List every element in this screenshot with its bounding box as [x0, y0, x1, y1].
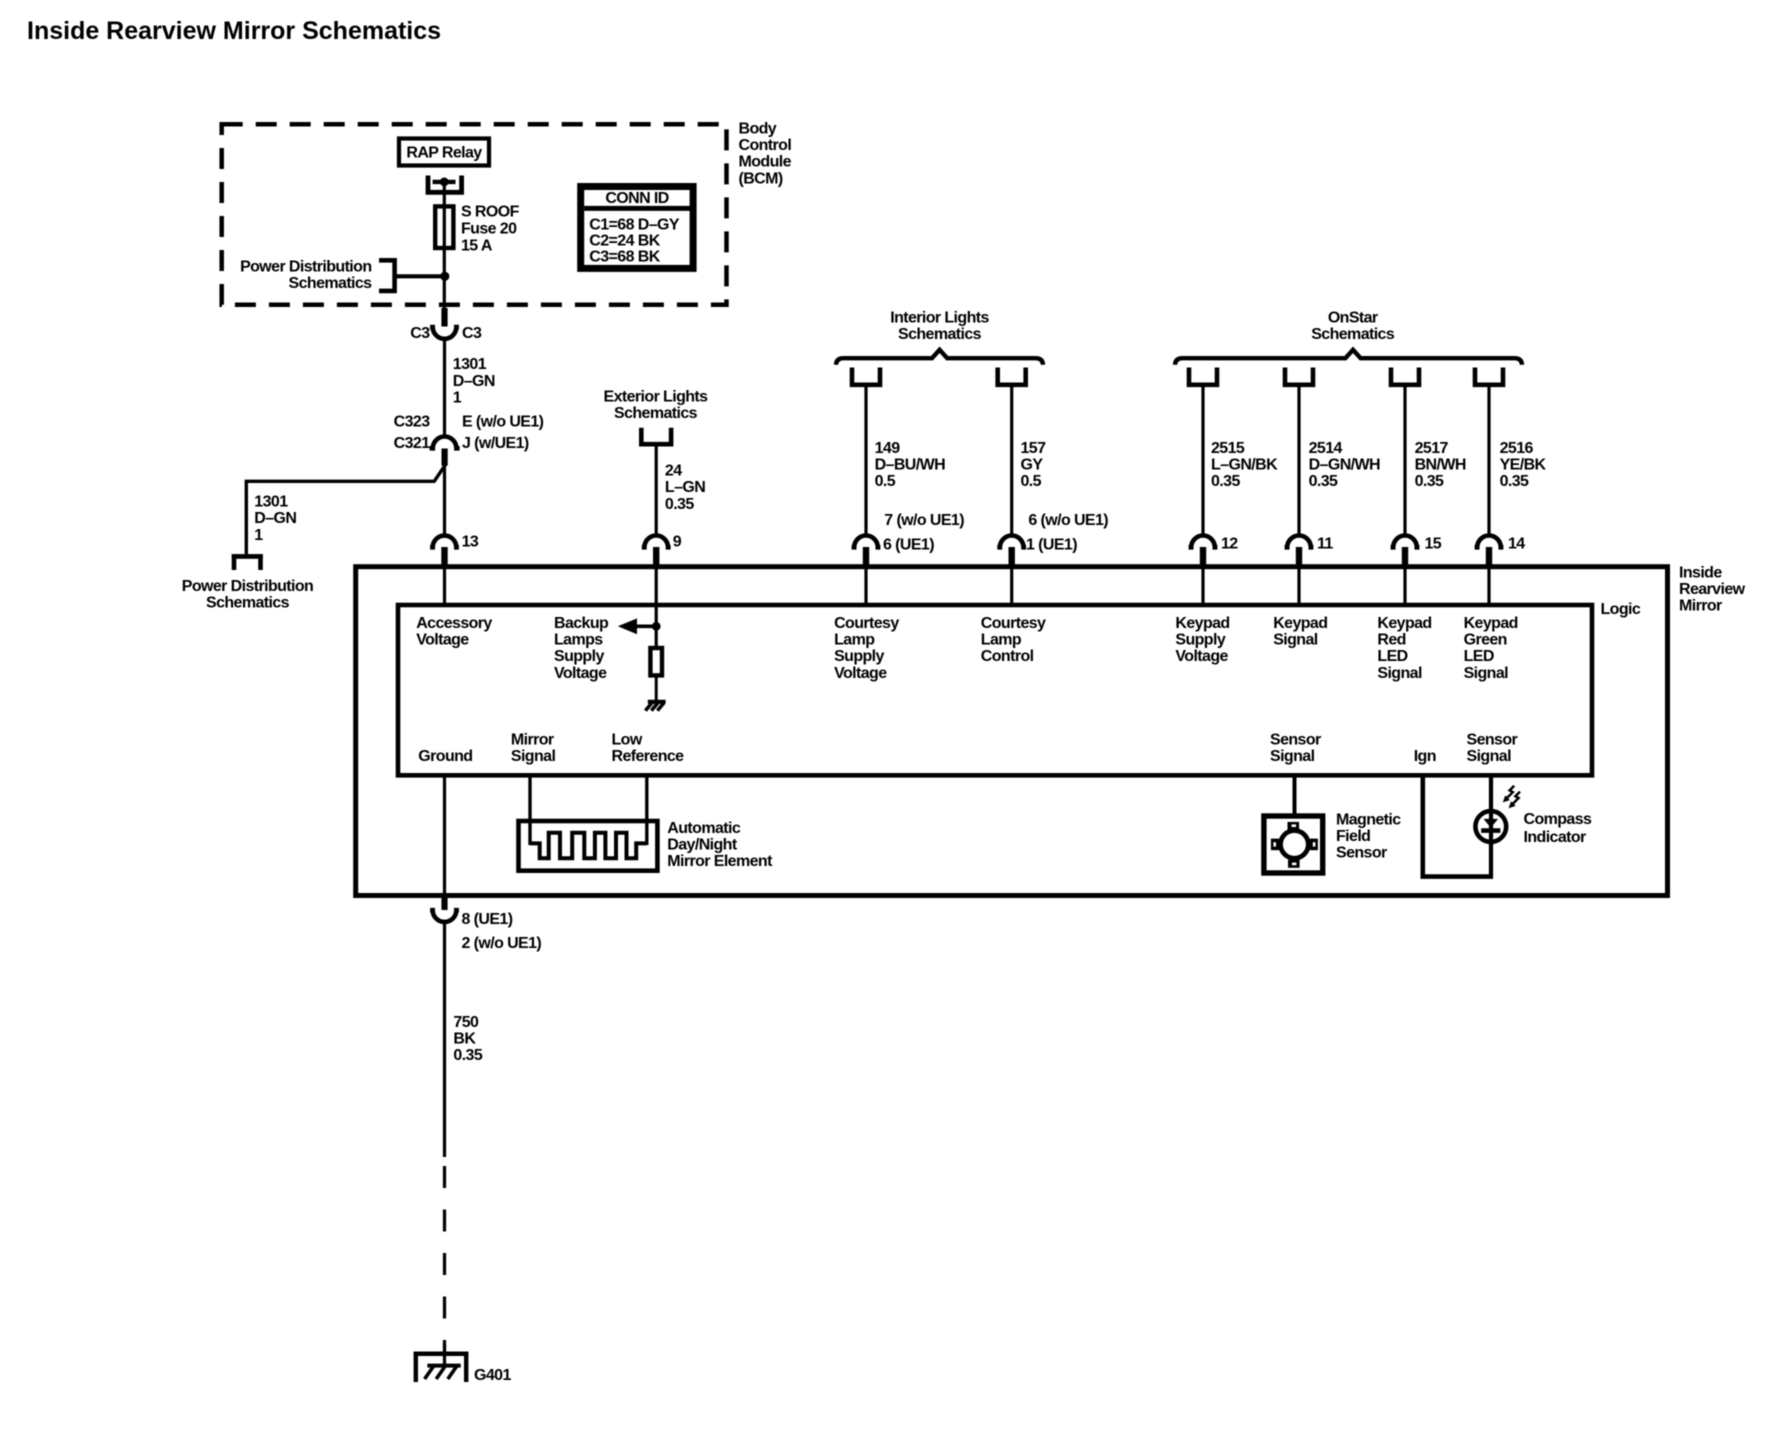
pin 15	[1391, 535, 1420, 547]
wire pin into logic x=866	[864, 565, 867, 604]
pin 13	[430, 536, 459, 548]
svg-text:6 (UE1): 6 (UE1)	[883, 537, 934, 554]
wire at x=1299	[1297, 385, 1300, 536]
svg-text:13: 13	[462, 533, 479, 550]
wire 157 GY	[1010, 385, 1013, 536]
wire C321 to pin 13	[443, 465, 446, 537]
svg-text:RAP Relay: RAP Relay	[406, 145, 482, 162]
pin 11	[1285, 535, 1314, 547]
wire Ign	[1423, 776, 1489, 877]
wire Mirror Signal	[528, 776, 531, 845]
wire at x=1203	[1201, 385, 1204, 536]
svg-text:G401: G401	[474, 1367, 511, 1384]
junction dot	[440, 272, 449, 281]
wire Ground down	[443, 776, 446, 897]
bracket power distribution destination	[234, 556, 261, 570]
wire to arrow	[633, 624, 656, 628]
bracket OnStar source x=1489	[1475, 368, 1503, 385]
pin 14	[1475, 535, 1504, 547]
wire C3 to C321	[443, 340, 446, 437]
bracket OnStar source x=1299	[1285, 368, 1313, 385]
box Automatic Day/Night Mirror Element	[519, 821, 658, 871]
relay contact symbol	[428, 176, 462, 193]
dashed wire to G401	[443, 1166, 446, 1352]
box Inside Rearview Mirror	[356, 567, 1668, 896]
wire to backup node	[655, 604, 658, 626]
svg-text:9: 9	[673, 533, 682, 550]
svg-text:Logic: Logic	[1601, 601, 1641, 618]
stub connector 8	[441, 897, 447, 910]
wire pin into logic x=1299	[1297, 565, 1300, 604]
wire Sensor Signal to magnetic sensor	[1293, 776, 1297, 816]
svg-text:SensorSignal: SensorSignal	[1467, 731, 1518, 765]
svg-text:8 (UE1): 8 (UE1)	[462, 911, 513, 928]
ground G401 symbol	[414, 1352, 469, 1357]
wire pin into logic x=444.5	[443, 565, 446, 604]
pin 12	[1189, 535, 1218, 547]
svg-text:14: 14	[1508, 536, 1525, 553]
wire relay to fuse	[443, 182, 446, 206]
fuse S ROOF Fuse 20 15A	[435, 206, 453, 248]
arrow backup lamps	[618, 618, 637, 634]
divider CONN ID	[584, 206, 693, 211]
pin 1/6	[997, 536, 1026, 548]
wire fuse to BCM edge	[443, 248, 446, 309]
wire pin into logic x=1489	[1487, 565, 1490, 604]
connector 8 (UE1)	[430, 910, 459, 922]
bracket OnStar source x=1405	[1391, 368, 1419, 385]
svg-text:7 (w/o UE1): 7 (w/o UE1)	[884, 512, 964, 529]
compass indicator LED	[1475, 811, 1506, 842]
box Logic module	[398, 605, 1592, 775]
pin 9	[642, 536, 671, 548]
svg-text:E (w/o UE1): E (w/o UE1)	[462, 413, 544, 430]
wire at x=1489	[1487, 385, 1490, 536]
wire pin into logic x=1405	[1403, 565, 1406, 604]
wire at x=1405	[1403, 385, 1406, 536]
wire Sensor Signal to compass	[1489, 776, 1493, 846]
magnetic field sensor symbol	[1288, 822, 1300, 830]
bracket OnStar source x=1203	[1189, 368, 1217, 385]
connector C3	[430, 327, 459, 339]
bracket Power Distribution reference	[379, 260, 395, 291]
wire pin into logic x=1011.7	[1010, 565, 1013, 604]
bracket Interior source 1	[852, 368, 880, 385]
wire branch to power distribution	[246, 465, 445, 555]
wire pin into logic x=1203	[1201, 565, 1204, 604]
svg-text:Inside Rearview Mirror Schemat: Inside Rearview Mirror Schematics	[27, 17, 441, 45]
wire 750 BK	[443, 923, 446, 1157]
wire to Power Distribution ref	[395, 274, 442, 278]
pin 6/7	[852, 536, 881, 548]
svg-text:2 (w/o UE1): 2 (w/o UE1)	[462, 935, 542, 952]
svg-text:15: 15	[1425, 536, 1442, 553]
wire through fuse	[443, 208, 446, 246]
svg-text:J (w/UE1): J (w/UE1)	[462, 435, 529, 452]
connector C321 arch	[430, 437, 460, 449]
wire resistor to ground	[655, 677, 658, 701]
stub C3	[441, 308, 447, 327]
svg-text:Ign: Ign	[1414, 748, 1436, 765]
resistor backup lamps	[650, 648, 662, 675]
svg-text:Interior LightsSchematics: Interior LightsSchematics	[890, 310, 989, 344]
brace Interior Lights	[836, 350, 1043, 365]
svg-text:Exterior LightsSchematics: Exterior LightsSchematics	[604, 388, 709, 422]
svg-text:C3: C3	[462, 325, 482, 342]
bracket Exterior Lights source	[641, 428, 671, 444]
svg-text:CompassIndicator: CompassIndicator	[1524, 811, 1593, 846]
table CONN ID box	[581, 187, 693, 269]
wire 24 L-GN	[655, 444, 658, 536]
lightning arrows compass indicator	[1507, 786, 1514, 798]
wire compass to ign jog	[1489, 843, 1493, 879]
svg-text:C3: C3	[410, 325, 430, 342]
relay RAP Relay box	[399, 139, 489, 166]
svg-text:Ground: Ground	[418, 748, 472, 765]
svg-text:11: 11	[1317, 536, 1333, 553]
svg-text:SensorSignal: SensorSignal	[1270, 731, 1321, 765]
BCM dashed box	[222, 124, 727, 305]
svg-text:6 (w/o UE1): 6 (w/o UE1)	[1028, 512, 1108, 529]
wire node to resistor	[655, 626, 658, 648]
bracket Interior source 2	[998, 368, 1026, 385]
brace OnStar	[1175, 350, 1522, 365]
junction backup node	[652, 622, 661, 631]
svg-text:BackupLampsSupplyVoltage: BackupLampsSupplyVoltage	[554, 615, 609, 682]
resistive element squiggle	[530, 833, 647, 859]
box magnetic field sensor	[1264, 816, 1323, 873]
svg-text:MirrorSignal: MirrorSignal	[511, 731, 556, 765]
wire 149 D-BU/WH	[864, 385, 867, 536]
svg-text:12: 12	[1221, 536, 1238, 553]
svg-text:1 (UE1): 1 (UE1)	[1026, 537, 1077, 554]
svg-text:CONN ID: CONN ID	[605, 190, 668, 207]
svg-text:KeypadSupplyVoltage: KeypadSupplyVoltage	[1175, 615, 1229, 665]
ground symbol inside logic	[648, 700, 666, 704]
stub below C321	[442, 449, 448, 466]
wire Low Reference	[645, 776, 648, 845]
wire pin into logic x=656.2	[655, 565, 658, 604]
